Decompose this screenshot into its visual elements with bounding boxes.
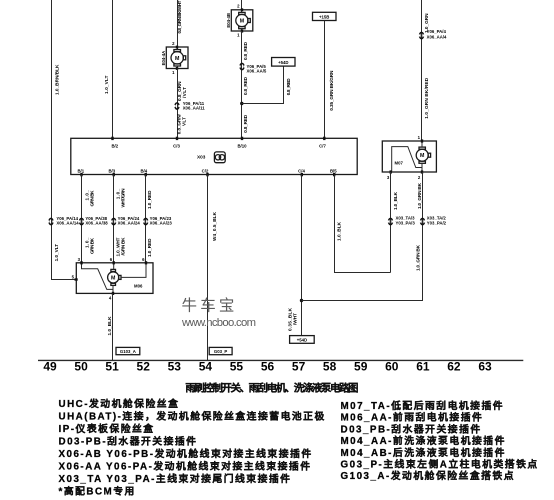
svg-text:1.0_BLK: 1.0_BLK: [393, 191, 398, 210]
svg-text:VLT: VLT: [181, 117, 186, 126]
svg-text:+54D: +54D: [278, 60, 288, 65]
svg-text:GRN BK: GRN BK: [90, 237, 95, 254]
pin tick C/7: [323, 137, 325, 140]
svg-text:54: 54: [199, 359, 213, 373]
svg-text:X06-AB Y06-PB-发动机舱线束对接主线束接插件: X06-AB Y06-PB-发动机舱线束对接主线束接插件: [59, 447, 313, 460]
connector on B/1 wire: [78, 218, 85, 224]
connector on right line: [418, 32, 425, 38]
wire 1.0_VLT to B/2: [112, 0, 114, 138]
svg-text:X06_AA/4: X06_AA/4: [427, 35, 447, 40]
pin tick B/10: [241, 137, 243, 140]
front wiper motor M06: [75, 261, 154, 295]
legend right column: [341, 399, 539, 482]
svg-text:X03_TA Y03_PA-主线束对接尾门线束接插件: X03_TA Y03_PA-主线束对接尾门线束接插件: [59, 472, 292, 485]
svg-text:W4_0.5_BLK: W4_0.5_BLK: [212, 211, 217, 241]
pin tick B/1: [80, 173, 82, 176]
svg-text:49: 49: [43, 359, 57, 373]
svg-text:M: M: [240, 19, 245, 25]
svg-text:E04-4B: E04-4B: [226, 13, 231, 28]
svg-text:57: 57: [292, 359, 306, 373]
svg-text:X03: X03: [197, 154, 206, 159]
svg-text:60: 60: [385, 359, 399, 373]
svg-text:雨刷控制开关、雨刮电机、洗涤液泵电路图: 雨刷控制开关、雨刮电机、洗涤液泵电路图: [185, 382, 358, 395]
svg-text:G103_A-发动机舱保险丝盒搭铁点: G103_A-发动机舱保险丝盒搭铁点: [341, 469, 516, 482]
ground box G03_P: [209, 347, 232, 354]
wire M07 pin 2 down and over to junction: [302, 172, 423, 301]
svg-text:D03_PB-刮水器开关接插件: D03_PB-刮水器开关接插件: [341, 422, 482, 435]
svg-text:M: M: [420, 153, 425, 159]
svg-text:X06_AA/23: X06_AA/23: [150, 221, 173, 226]
branch wire to +54D box: [242, 66, 284, 103]
pin tick B/4: [145, 173, 147, 176]
svg-text:M04_AA-前洗涤液泵电机接插件: M04_AA-前洗涤液泵电机接插件: [341, 434, 506, 447]
svg-text:55: 55: [230, 359, 244, 373]
svg-text:D03-PB-刮水器开关接插件: D03-PB-刮水器开关接插件: [59, 435, 198, 448]
svg-text:0.35_GRN BK/GRN: 0.35_GRN BK/GRN: [329, 70, 334, 111]
wire M07 pin 3 down: [390, 172, 392, 273]
wire top into E04-4B: [241, 0, 243, 10]
pin tick B/3: [113, 173, 115, 176]
svg-text:M: M: [175, 56, 180, 62]
svg-text:X06_AA/24: X06_AA/24: [118, 221, 141, 226]
svg-text:X06_AA/5: X06_AA/5: [247, 69, 267, 74]
connector on M07 pin3 wire: [387, 218, 394, 224]
connector on B/4 wire: [142, 218, 149, 224]
pin tick B/2: [111, 137, 113, 140]
svg-text:0.8_GRN BK/WHT: 0.8_GRN BK/WHT: [177, 0, 182, 33]
svg-text:X06_AA/38: X06_AA/38: [85, 221, 108, 226]
svg-text:GRN BK: GRN BK: [90, 190, 95, 207]
pin tick C/4: [301, 173, 303, 176]
svg-text:51: 51: [105, 359, 119, 373]
legend left column: [59, 397, 326, 498]
svg-text:1.0_BLK: 1.0_BLK: [107, 316, 112, 336]
washer motor E04-4A: [166, 46, 188, 70]
svg-text:B/3: B/3: [108, 169, 115, 174]
wire B/1 to M06 pin 3: [81, 175, 83, 264]
svg-text:59: 59: [354, 359, 368, 373]
svg-text:62: 62: [447, 359, 461, 373]
wire C/4 down to +54D: [301, 175, 303, 336]
svg-text:0.8_RED: 0.8_RED: [243, 114, 248, 133]
svg-text:UHC-发动机舱保险丝盒: UHC-发动机舱保险丝盒: [59, 397, 180, 410]
svg-text:M04_AB-后洗涤液泵电机接插件: M04_AB-后洗涤液泵电机接插件: [341, 446, 506, 459]
switch icon: [214, 152, 225, 163]
svg-text:1.0_VLT: 1.0_VLT: [54, 244, 59, 262]
svg-text:1.0_GRN BK: 1.0_GRN BK: [415, 244, 420, 271]
svg-text:M06: M06: [134, 284, 143, 289]
svg-text:0.8_RED: 0.8_RED: [243, 76, 248, 95]
svg-text:C/4: C/4: [298, 169, 305, 174]
svg-text:*高配BCM专用: *高配BCM专用: [59, 485, 136, 498]
svg-text:0.8_RED: 0.8_RED: [243, 41, 248, 60]
svg-text:Y06_PA/4: Y06_PA/4: [427, 29, 447, 34]
svg-text:www.ncboo.com: www.ncboo.com: [181, 317, 256, 329]
grid baseline: [38, 359, 523, 361]
svg-text:G03_P: G03_P: [214, 349, 228, 354]
wire C/2 to ground G03_P: [207, 175, 209, 361]
svg-text:M06_AA-前雨刮电机接插件: M06_AA-前雨刮电机接插件: [341, 411, 484, 424]
svg-text:/GRN BK: /GRN BK: [121, 237, 126, 256]
power ref box +54D bottom: [290, 336, 315, 344]
svg-text:IP-仪表板保险丝盒: IP-仪表板保险丝盒: [59, 422, 155, 435]
grid numbers 49-63: [43, 359, 492, 373]
pin tick B/5: [333, 173, 335, 176]
svg-text:B/1: B/1: [77, 169, 84, 174]
pin tick C/2: [206, 173, 208, 176]
wire B/5 down and over to M07 pin 3: [335, 175, 391, 273]
svg-text:B/2: B/2: [111, 143, 118, 148]
svg-text:56: 56: [261, 359, 275, 373]
wire B/3 to M06 motor: [113, 175, 115, 264]
svg-text:Y03_PA/3: Y03_PA/3: [396, 220, 416, 225]
connector on M07 pin2 wire: [419, 218, 426, 224]
svg-text:E04-4A: E04-4A: [161, 51, 166, 66]
pin tick C/3: [176, 137, 178, 140]
svg-text:1.0_VLT: 1.0_VLT: [104, 75, 109, 94]
svg-text:1.0_RED: 1.0_RED: [147, 238, 152, 257]
wire M06 pin 4 to ground: [112, 294, 114, 361]
svg-text:63: 63: [478, 359, 492, 373]
svg-text:61: 61: [416, 359, 430, 373]
power ref box +15B top: [313, 12, 337, 20]
svg-text:50: 50: [74, 359, 88, 373]
svg-text:53: 53: [168, 359, 182, 373]
svg-text:/VLT: /VLT: [182, 87, 187, 98]
wire +15B to C/7: [324, 21, 326, 139]
washer motor E04-4B: [231, 8, 253, 32]
svg-text:B/10: B/10: [237, 143, 247, 148]
svg-text:X06-AA Y06-PA-发动机舱线束对接主线束接插件: X06-AA Y06-PA-发动机舱线束对接主线束接插件: [59, 460, 312, 473]
svg-text:0.8_RED: 0.8_RED: [286, 78, 291, 96]
rear washer pump M07: [382, 139, 436, 173]
svg-text:1.0_GRN BK: 1.0_GRN BK: [417, 182, 422, 209]
svg-text:X06_AA/11: X06_AA/11: [183, 105, 206, 110]
wire 1.0_GRN to M07 pin 1: [421, 0, 423, 141]
svg-text:G03_P-主线束左侧A立柱电机类搭铁点: G03_P-主线束左侧A立柱电机类搭铁点: [341, 458, 539, 471]
svg-text:UHA(BAT)-连接，发动机舱保险丝盒连接蓄电池正极: UHA(BAT)-连接，发动机舱保险丝盒连接蓄电池正极: [59, 410, 326, 423]
wire E04-4A pin1 to C/3: [177, 69, 179, 139]
svg-text:G103_A: G103_A: [120, 349, 136, 354]
svg-text:M07: M07: [395, 161, 404, 166]
junction node on E04-4B wire: [240, 102, 243, 105]
svg-text:1.0_BRN/BLK: 1.0_BRN/BLK: [55, 64, 60, 95]
svg-text:1.0_RED: 1.0_RED: [147, 190, 152, 209]
svg-text:+15B: +15B: [319, 15, 329, 20]
svg-text:M: M: [111, 275, 116, 281]
svg-text:58: 58: [323, 359, 337, 373]
svg-text:52: 52: [137, 359, 151, 373]
svg-text:+54D: +54D: [297, 338, 307, 343]
svg-text:X06_AA/14: X06_AA/14: [56, 221, 79, 226]
svg-text:C/3: C/3: [173, 143, 180, 148]
svg-text:1.0_BLK: 1.0_BLK: [336, 221, 341, 241]
connector on B/3 wire: [110, 218, 117, 224]
wire 0.8_GRN BK/WHT into E04-4A: [177, 0, 179, 47]
svg-text:B/5: B/5: [330, 169, 337, 174]
svg-text:M07_TA-低配后雨刮电机接插件: M07_TA-低配后雨刮电机接插件: [341, 399, 505, 412]
svg-text:B/4: B/4: [140, 169, 147, 174]
svg-text:/WHT: /WHT: [293, 313, 298, 325]
wire E04-4B pin1 to B/10: [241, 31, 243, 139]
wire B/4 to M06: [145, 175, 147, 264]
svg-text:1.0_GRN BK/RED: 1.0_GRN BK/RED: [424, 77, 429, 119]
ground box G103_A: [116, 347, 140, 354]
svg-text:C/7: C/7: [319, 143, 326, 148]
connector on E04-4A wire: [174, 103, 181, 109]
svg-text:牛车宝: 牛车宝: [182, 297, 238, 315]
svg-text:C/2: C/2: [202, 169, 209, 174]
power ref box +54D near E04-4B: [272, 58, 295, 67]
wire 1.0_BRN/BLK left line to M06 pin 5: [52, 0, 77, 280]
svg-text:Y03_PA/2: Y03_PA/2: [427, 220, 447, 225]
connector on E04-4B wire: [239, 63, 246, 69]
wiper switch X03 main box: [71, 138, 357, 174]
svg-text:WHT/GRN: WHT/GRN: [121, 188, 126, 208]
connector on left line: [48, 218, 55, 224]
junction node C/4: [300, 299, 303, 302]
